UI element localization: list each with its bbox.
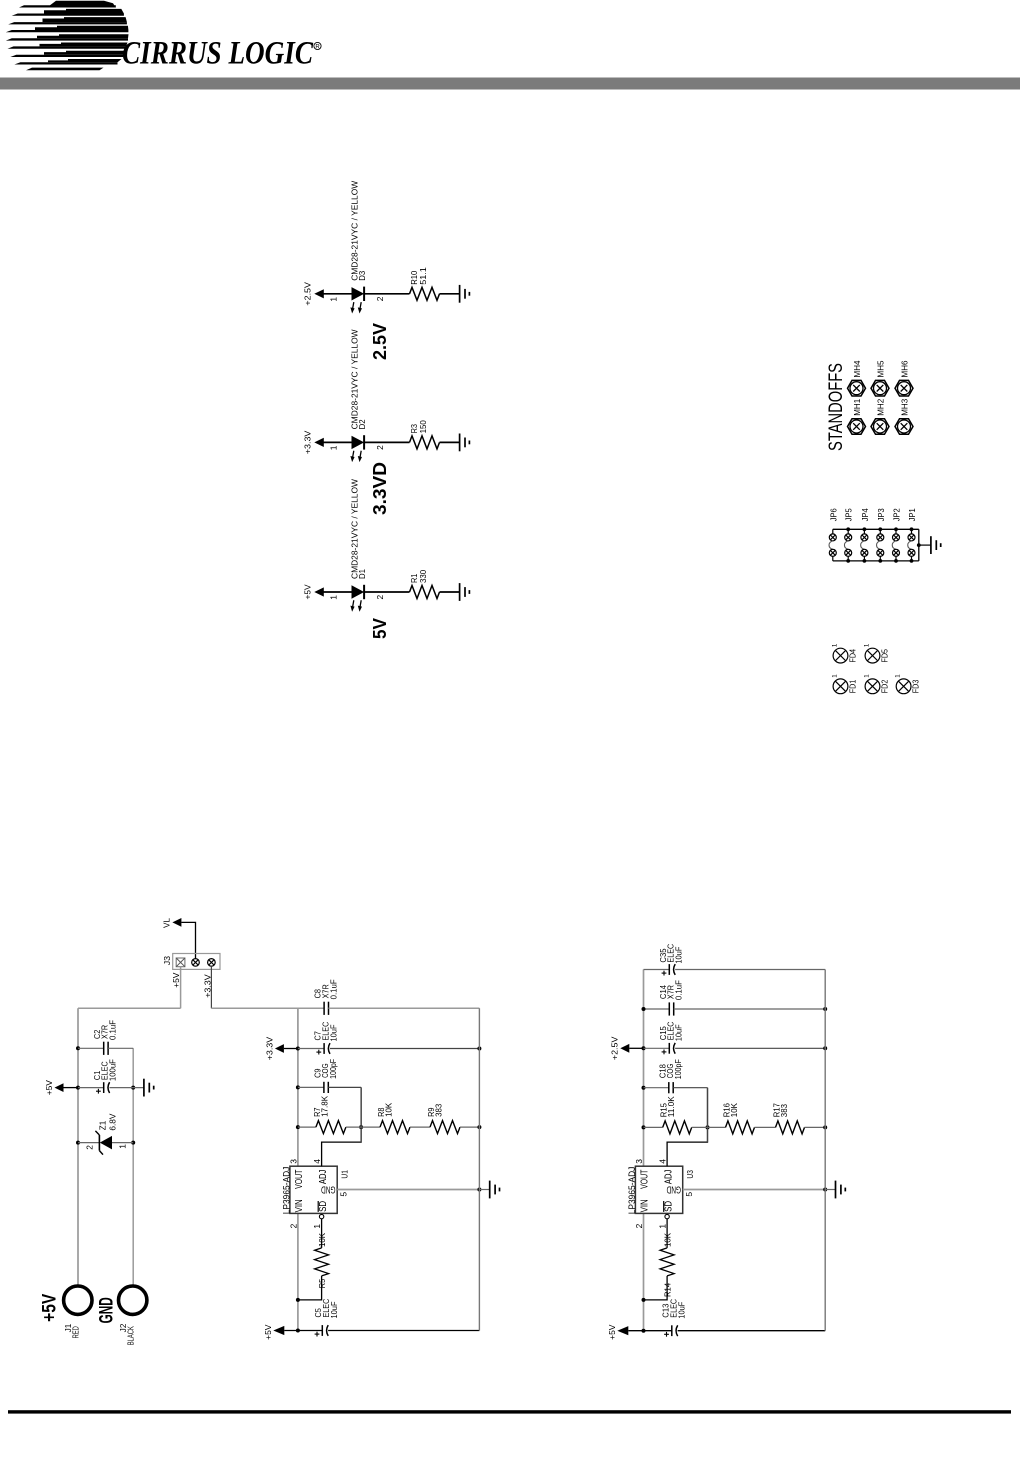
svg-text:+2.5V: +2.5V	[610, 1036, 620, 1060]
capacitor C35 ELEC 10uF	[658, 944, 683, 976]
junction	[76, 1141, 80, 1145]
wire	[440, 293, 460, 295]
svg-text:ADJ: ADJ	[663, 1170, 674, 1184]
wire	[78, 1087, 104, 1089]
svg-text:330: 330	[418, 569, 428, 583]
wire right rail (U1 section)	[478, 1008, 480, 1330]
svg-text:JP2: JP2	[893, 508, 902, 521]
resistor R14 10K (shutdown pull)	[644, 1214, 675, 1300]
svg-text:2: 2	[375, 296, 385, 301]
wire	[479, 1189, 489, 1191]
wire	[298, 1048, 324, 1050]
wire top rail to C35	[644, 969, 670, 971]
jumper JP1	[908, 508, 917, 563]
svg-text:4: 4	[312, 1159, 322, 1164]
capacitor C8 X7R 0.1uF	[313, 979, 339, 1015]
ground	[460, 434, 470, 452]
wire	[440, 441, 460, 443]
mounting hole MH6	[895, 360, 913, 396]
wire ADJ pin 4	[667, 1088, 707, 1167]
wire	[78, 1142, 99, 1144]
svg-text:150: 150	[418, 420, 428, 434]
LED D3 CMD28-21VYC / YELLOW	[349, 181, 367, 314]
header gray bar	[0, 78, 1020, 90]
svg-text:CMD28-21VYC / YELLOW: CMD28-21VYC / YELLOW	[349, 181, 359, 281]
resistor R16 10K	[722, 1103, 755, 1134]
resistor R17 383	[772, 1103, 805, 1134]
svg-text:100uF: 100uF	[108, 1059, 118, 1081]
junction	[642, 1298, 646, 1302]
wire	[460, 1126, 479, 1128]
wire feedback	[360, 1087, 362, 1142]
svg-text:2: 2	[289, 1223, 299, 1228]
footer rule	[8, 1410, 1011, 1413]
junction	[296, 1047, 300, 1051]
svg-text:1: 1	[312, 1224, 322, 1229]
wire	[644, 1087, 669, 1089]
svg-text:D3: D3	[357, 270, 367, 280]
wire	[805, 1126, 826, 1128]
wire	[919, 544, 931, 546]
junction	[296, 1329, 300, 1333]
wire	[298, 1126, 316, 1128]
resistor R8 10K	[376, 1102, 410, 1133]
voltage regulator U3 LP3965-ADJ	[627, 1159, 695, 1229]
svg-text:51.1: 51.1	[418, 267, 428, 285]
wire	[440, 591, 460, 593]
junction	[642, 1046, 646, 1050]
wire	[328, 1086, 361, 1088]
wire	[330, 1048, 480, 1050]
svg-text:1: 1	[831, 674, 838, 678]
svg-text:STANDOFFS: STANDOFFS	[825, 363, 847, 451]
capacitor C13 ELEC 10uF	[660, 1299, 686, 1337]
svg-text:JP5: JP5	[845, 508, 854, 521]
wire GND pin 5	[683, 1189, 826, 1191]
resistor R5 10K (shutdown pull)	[298, 1214, 329, 1300]
wire	[346, 1126, 380, 1128]
junction	[823, 1046, 827, 1050]
svg-text:1: 1	[831, 643, 838, 647]
resistor R10 51.1	[409, 267, 440, 300]
capacitor C15 ELEC 10uF	[658, 1022, 683, 1055]
wire VOUT rail	[643, 970, 645, 1167]
svg-text:+5V: +5V	[263, 1324, 273, 1340]
wire right rail of input section	[132, 1048, 134, 1284]
svg-text:10K: 10K	[384, 1102, 394, 1116]
svg-text:1: 1	[328, 595, 338, 600]
svg-text:BLACK: BLACK	[127, 1326, 136, 1346]
svg-text:2: 2	[84, 1145, 94, 1150]
svg-text:10K: 10K	[317, 1233, 327, 1247]
junction	[359, 1125, 363, 1129]
svg-text:5: 5	[338, 1192, 348, 1197]
svg-text:VIN: VIN	[639, 1199, 650, 1212]
svg-text:MH1: MH1	[853, 398, 862, 415]
wire +5V bus	[78, 1007, 181, 1009]
svg-text:FD2: FD2	[881, 679, 890, 693]
svg-text:FD5: FD5	[881, 649, 890, 663]
wire	[323, 293, 351, 295]
svg-text:17.8K: 17.8K	[319, 1096, 329, 1117]
svg-text:2.5V: 2.5V	[370, 323, 390, 360]
power symbol +5V (U1 input)	[263, 1324, 285, 1340]
wire	[78, 1047, 104, 1049]
wire	[181, 922, 195, 958]
voltage regulator U1 LP3965-ADJ	[281, 1159, 349, 1229]
junction	[477, 1125, 481, 1129]
svg-text:+5V: +5V	[171, 972, 181, 988]
svg-text:10K: 10K	[663, 1233, 673, 1247]
capacitor C1 ELEC 100uF	[92, 1059, 118, 1094]
wire feedback	[707, 1088, 709, 1142]
svg-text:1: 1	[658, 1224, 668, 1229]
svg-text:3: 3	[289, 1159, 299, 1164]
svg-text:10uF: 10uF	[673, 1024, 683, 1041]
capacitor C5 ELEC 10uF	[313, 1299, 339, 1337]
wire	[323, 591, 351, 593]
junction	[296, 1085, 300, 1089]
svg-text:FD1: FD1	[849, 679, 858, 693]
wire	[692, 1126, 726, 1128]
svg-text:3.3VD: 3.3VD	[370, 462, 390, 515]
wire	[364, 441, 409, 443]
junction	[823, 1125, 827, 1129]
svg-text:2: 2	[375, 594, 385, 599]
svg-text:MH2: MH2	[877, 398, 886, 415]
svg-text:0.1uF: 0.1uF	[673, 980, 683, 1000]
svg-text:383: 383	[434, 1103, 444, 1117]
connector J3	[162, 954, 220, 970]
svg-text:MH3: MH3	[901, 398, 910, 415]
wire	[210, 966, 212, 1008]
svg-text:MH5: MH5	[877, 360, 886, 377]
svg-text:10K: 10K	[729, 1103, 739, 1117]
svg-text:2: 2	[375, 445, 385, 450]
wire	[675, 969, 825, 971]
resistor R9 383	[426, 1103, 460, 1133]
wire	[328, 1330, 479, 1332]
svg-text:+2.5V: +2.5V	[303, 282, 313, 306]
jumper block JP1-JP6 bus wires	[833, 529, 919, 561]
wire	[673, 1087, 707, 1089]
svg-text:J3: J3	[162, 956, 172, 966]
svg-text:JP4: JP4	[861, 508, 870, 521]
junction	[131, 1141, 135, 1145]
svg-text:0.1uF: 0.1uF	[108, 1020, 118, 1040]
junction	[76, 1046, 80, 1050]
wire	[64, 1087, 79, 1089]
junction	[477, 1047, 481, 1051]
svg-text:10uF: 10uF	[673, 947, 683, 964]
wire VIN rail	[643, 1213, 645, 1330]
svg-text:CMD28-21VYC / YELLOW: CMD28-21VYC / YELLOW	[349, 479, 359, 579]
svg-text:RED: RED	[72, 1326, 81, 1338]
wire	[108, 1047, 133, 1049]
jumper JP3	[877, 508, 886, 563]
capacitor C7 ELEC 10uF	[313, 1022, 339, 1055]
svg-text:FD3: FD3	[912, 679, 921, 693]
svg-text:2: 2	[634, 1223, 644, 1228]
svg-text:VOUT: VOUT	[294, 1170, 305, 1189]
svg-text:VOUT: VOUT	[639, 1170, 650, 1189]
mounting hole MH5	[871, 360, 889, 396]
ground	[490, 1181, 500, 1199]
wire	[329, 1007, 480, 1009]
banana jack J2 BLACK	[119, 1286, 147, 1345]
jumper JP2	[892, 508, 901, 563]
fiducial FD1	[831, 674, 857, 694]
wire	[284, 1330, 322, 1332]
svg-text:R14: R14	[663, 1283, 673, 1297]
svg-text:U1: U1	[339, 1170, 349, 1179]
wire	[678, 1330, 826, 1332]
svg-text:D2: D2	[357, 419, 367, 429]
svg-text:3: 3	[634, 1159, 644, 1164]
junction	[296, 1125, 300, 1129]
power symbol +5V	[44, 1080, 64, 1096]
mounting hole MH2	[871, 398, 889, 434]
junction	[823, 1188, 827, 1192]
junction	[823, 1007, 827, 1011]
svg-text:100pF: 100pF	[673, 1059, 683, 1079]
wire	[825, 1189, 835, 1191]
capacitor C18 COG 100pF	[657, 1059, 683, 1093]
svg-text:100pF: 100pF	[328, 1059, 338, 1079]
wire	[675, 1047, 825, 1049]
mounting hole MH1	[848, 398, 866, 434]
svg-text:10uF: 10uF	[328, 1025, 338, 1042]
wire	[110, 1087, 144, 1089]
wire	[323, 441, 351, 443]
fiducial FD2	[863, 674, 889, 694]
svg-text:1: 1	[328, 445, 338, 450]
wire	[284, 1048, 298, 1050]
junction	[296, 1298, 300, 1302]
wire VOUT rail	[297, 1008, 299, 1166]
svg-text:MH6: MH6	[901, 360, 910, 377]
svg-text:4: 4	[658, 1159, 668, 1164]
wire	[644, 1008, 670, 1010]
svg-text:LP3965-ADJ: LP3965-ADJ	[627, 1166, 638, 1214]
svg-text:11.0K: 11.0K	[666, 1096, 676, 1117]
svg-text:1: 1	[328, 297, 338, 302]
junction	[477, 1188, 481, 1192]
junction	[642, 1086, 646, 1090]
wire	[180, 967, 182, 1009]
svg-text:5V: 5V	[370, 618, 390, 639]
junction	[706, 1125, 710, 1129]
jumper JP5	[844, 508, 853, 563]
ground	[460, 285, 470, 303]
wire	[410, 1126, 430, 1128]
wire	[298, 1086, 324, 1088]
svg-text:1: 1	[863, 643, 870, 647]
capacitor C14 X7R 0.1uF	[658, 980, 683, 1016]
mounting hole MH4	[848, 360, 866, 396]
junction	[76, 1086, 80, 1090]
power symbol +2.5V (net arrow)	[303, 282, 324, 306]
LED D1 CMD28-21VYC / YELLOW	[349, 479, 367, 612]
resistor R7 17.8K	[312, 1096, 346, 1134]
registered trademark symbol	[314, 42, 321, 50]
svg-text:10uF: 10uF	[329, 1302, 339, 1319]
junction	[642, 1329, 646, 1333]
svg-text:1: 1	[117, 1144, 127, 1149]
svg-text:6.8V: 6.8V	[107, 1113, 117, 1130]
wire left rail	[77, 1008, 79, 1284]
svg-text:+5V: +5V	[607, 1324, 617, 1340]
junction	[131, 1086, 135, 1090]
wire	[628, 1330, 672, 1332]
svg-text:+3.3V: +3.3V	[264, 1036, 274, 1060]
svg-text:CMD28-21VYC / YELLOW: CMD28-21VYC / YELLOW	[349, 329, 359, 429]
fiducial FD4	[831, 643, 857, 663]
wire VIN rail	[297, 1213, 299, 1330]
svg-text:SD: SD	[318, 1201, 329, 1212]
wire GND pin 5	[337, 1189, 479, 1191]
resistor R15 11.0K	[659, 1096, 692, 1134]
ground	[836, 1181, 846, 1199]
svg-text:JP1: JP1	[908, 508, 917, 521]
fiducial FD5	[863, 643, 889, 663]
ground	[144, 1079, 154, 1097]
jumper JP4	[861, 508, 870, 563]
wire	[644, 1126, 663, 1128]
svg-text:R: R	[315, 45, 320, 51]
wire	[364, 591, 409, 593]
svg-text:383: 383	[779, 1104, 789, 1118]
svg-text:VL: VL	[162, 918, 172, 928]
jumper JP6	[829, 508, 838, 561]
svg-text:1: 1	[894, 674, 901, 678]
ground	[931, 536, 941, 554]
svg-text:+5V: +5V	[39, 1293, 60, 1321]
svg-text:10uF: 10uF	[676, 1302, 686, 1319]
svg-text:U3: U3	[685, 1170, 695, 1179]
banana jack J1 RED	[64, 1286, 92, 1338]
power symbol +2.5V	[610, 1036, 630, 1060]
svg-text:VIN: VIN	[294, 1199, 305, 1212]
capacitor C9 COG 100pF	[312, 1059, 338, 1093]
junction	[917, 543, 921, 547]
junction	[642, 1007, 646, 1011]
power symbol +5V (net arrow)	[303, 584, 324, 599]
svg-text:ADJ: ADJ	[318, 1170, 329, 1184]
power symbol +3.3V (net arrow)	[303, 430, 324, 454]
svg-text:GND: GND	[667, 1184, 681, 1195]
svg-text:CIRRUS LOGIC: CIRRUS LOGIC	[122, 36, 314, 72]
svg-text:JP3: JP3	[877, 508, 886, 521]
wire	[755, 1126, 776, 1128]
svg-text:Z1: Z1	[97, 1120, 107, 1130]
junction	[642, 1125, 646, 1129]
wire	[112, 1142, 133, 1144]
svg-text:R5: R5	[317, 1279, 327, 1289]
power symbol +5V (U3 input)	[607, 1324, 629, 1340]
wire bus to C8	[211, 1007, 324, 1009]
fiducial FD3	[894, 674, 920, 694]
Cirrus Logic globe logo	[6, 1, 129, 70]
svg-text:LP3965-ADJ: LP3965-ADJ	[281, 1166, 292, 1214]
wire	[644, 1047, 670, 1049]
svg-text:D1: D1	[357, 569, 367, 579]
resistor R3 150	[409, 420, 440, 449]
svg-text:MH4: MH4	[853, 360, 862, 377]
svg-text:GND: GND	[321, 1184, 335, 1195]
mounting hole MH3	[895, 398, 913, 434]
power symbol +3.3V	[264, 1036, 284, 1060]
svg-text:0.1uF: 0.1uF	[328, 979, 338, 999]
capacitor C2 X7R 0.1uF	[92, 1020, 118, 1055]
resistor R1 330	[409, 569, 440, 598]
ground	[460, 583, 470, 601]
wire	[674, 1008, 826, 1010]
svg-text:1: 1	[863, 674, 870, 678]
zener diode Z1 6.8V	[84, 1113, 127, 1154]
wire ADJ pin 4	[322, 1087, 362, 1166]
svg-text:5: 5	[684, 1192, 694, 1197]
svg-text:+5V: +5V	[44, 1080, 54, 1096]
svg-text:FD4: FD4	[849, 649, 858, 663]
LED D2 CMD28-21VYC / YELLOW	[349, 329, 367, 462]
wire	[364, 293, 409, 295]
svg-text:+5V: +5V	[303, 584, 313, 599]
net label VL	[162, 918, 182, 928]
svg-text:GND: GND	[96, 1297, 117, 1323]
svg-text:SD: SD	[663, 1201, 674, 1212]
svg-text:+3.3V: +3.3V	[303, 430, 313, 454]
wire right rail (U3 section)	[824, 970, 826, 1331]
wire	[629, 1047, 643, 1049]
svg-text:JP6: JP6	[829, 508, 838, 521]
